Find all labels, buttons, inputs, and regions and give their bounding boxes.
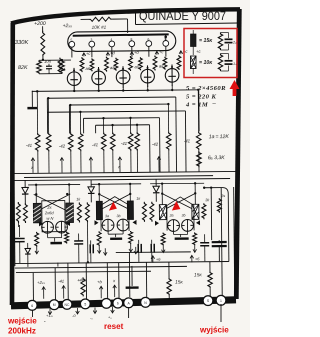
- svg-text:z: z: [118, 165, 120, 169]
- diode stage1 lower: [27, 243, 29, 248]
- wire pin7 up: [145, 262, 147, 299]
- stage1 cross wires: [34, 194, 71, 213]
- grid resistor 3: [139, 57, 143, 70]
- terminal pin A: [124, 298, 134, 308]
- svg-text:= 10ᴋ: = 10ᴋ: [199, 60, 213, 66]
- svg-text:4 = 1M: 4 = 1M: [185, 102, 209, 109]
- terminal pin 1: [216, 295, 226, 305]
- resistor stage1 left a: [16, 202, 20, 223]
- tube pin 8: [129, 41, 135, 47]
- svg-text:5: 5: [71, 38, 73, 42]
- ground bottom mid: [131, 266, 133, 286]
- arrows stage2 lower: [98, 246, 100, 253]
- cathode diode stage1 right: [66, 221, 70, 226]
- left rail vertical: [13, 174, 16, 266]
- anode resistor 3: [105, 57, 109, 72]
- diode D1: [24, 180, 26, 186]
- svg-text:2x6d: 2x6d: [44, 210, 54, 215]
- svg-text:5: 5: [84, 302, 86, 306]
- svg-text:+d: +d: [134, 50, 139, 55]
- trigger tube V1b: [56, 221, 68, 233]
- label +6 right: [191, 255, 193, 262]
- grid resistor 1: [90, 58, 94, 71]
- svg-text:reset: reset: [104, 322, 124, 331]
- svg-text:QUINADE Y 9007: QUINADE Y 9007: [139, 9, 226, 23]
- arrow x bottom: [114, 285, 116, 297]
- indicator lamp 4: [141, 69, 155, 83]
- pullup resistor mid-bottom: [81, 277, 86, 296]
- bus wire 5: [84, 117, 160, 120]
- divider resistor 9 feed: [167, 104, 169, 131]
- divider resistor 10: [196, 131, 201, 150]
- capacitor stage2 right: [137, 244, 139, 253]
- stage1 wires top: [35, 185, 37, 204]
- cathode diode stage1 left: [39, 221, 43, 226]
- terminal pin NC: [62, 300, 72, 310]
- output loop inner vertical: [210, 188, 213, 240]
- trigger tube V2b: [117, 219, 129, 231]
- resistor stage3 right: [202, 203, 206, 219]
- legend resistor 2: [218, 54, 222, 72]
- divider resistor 1 feed: [36, 91, 38, 132]
- cathode diode stage3 right: [196, 220, 200, 225]
- label +c arrow: [83, 53, 85, 56]
- coupling bar stage2 left: [96, 201, 102, 220]
- divider resistor 8: [135, 132, 140, 151]
- bottom bus 2: [15, 266, 187, 268]
- terminal pin 6: [27, 300, 37, 310]
- legend symbol solid bar: [191, 34, 197, 47]
- resistor 15K right: [208, 271, 213, 288]
- divider resistor 4: [78, 132, 83, 151]
- divider resistor 8 feed: [136, 125, 138, 132]
- label +6 left: [152, 256, 154, 263]
- svg-text:a1: a1: [61, 67, 66, 72]
- indicator lamp 5: [165, 68, 179, 82]
- terminal pin M: [49, 300, 59, 310]
- svg-text:a6: a6: [85, 66, 90, 71]
- divider resistor 2: [46, 133, 51, 152]
- svg-text:4: 4: [111, 38, 113, 42]
- svg-text:1: 1: [220, 299, 222, 303]
- wire node under 330K: [42, 57, 44, 61]
- svg-text:3a: 3a: [105, 214, 109, 218]
- stage3 cross wires: [162, 193, 195, 210]
- wire 10K to tube: [81, 18, 89, 20]
- svg-text:330K: 330K: [15, 40, 30, 46]
- terminal pin blank: [102, 299, 112, 309]
- label +d arrow: [131, 52, 133, 55]
- svg-text:= 15ᴋ: = 15ᴋ: [199, 38, 213, 44]
- tube inner stub: [165, 35, 167, 40]
- wire pin4 up: [85, 263, 87, 300]
- bus wire 6: [96, 124, 150, 127]
- divider resistor 6: [110, 132, 115, 151]
- input stub down: [32, 310, 34, 317]
- svg-text:+d: +d: [110, 50, 115, 55]
- legend capacitor 2: [225, 60, 233, 62]
- svg-text:-41: -41: [26, 143, 33, 148]
- cathode diode stage2 left: [94, 220, 98, 225]
- frame top border: [11, 9, 240, 23]
- svg-text:200kHz: 200kHz: [8, 327, 36, 336]
- stage2 envelope: [101, 196, 129, 231]
- trigger tube V2a: [102, 219, 114, 231]
- grid resistor 2: [114, 58, 118, 71]
- legend symbol hatched bar: [191, 56, 197, 69]
- capacitor stage1 left: [19, 225, 21, 237]
- divider resistor 9: [166, 132, 171, 151]
- terminal pin N: [141, 297, 151, 307]
- bus right verticals: [198, 90, 200, 131]
- ground stage2: [110, 238, 122, 241]
- tube pin 6: [146, 41, 152, 47]
- svg-text:+₀: +₀: [108, 316, 112, 320]
- wire output up: [221, 188, 222, 299]
- frame right border: [236, 9, 239, 299]
- label +c arrow: [180, 51, 182, 54]
- capacitor stage2 left: [89, 244, 91, 253]
- label +c arrow: [156, 51, 158, 54]
- resistor left of lamp 1: [60, 60, 65, 74]
- output loop wire: [204, 188, 229, 241]
- arrow +2xx: [43, 287, 45, 299]
- lamp feed verticals: [73, 89, 75, 91]
- resistor 82K: [37, 60, 42, 74]
- svg-text:10n: 10n: [44, 59, 52, 64]
- arrow -41 bottom: [63, 286, 65, 299]
- stage2 wires top: [98, 184, 100, 202]
- bottom bus 3: [16, 271, 151, 272]
- wire 82K bottom join: [39, 73, 62, 75]
- resistor 330K: [41, 31, 45, 57]
- divider resistor 10 feed: [197, 90, 199, 131]
- coupling bar stage3 left: [159, 205, 166, 220]
- divider resistor 4 feed: [79, 112, 81, 132]
- svg-text:+2ₓₓ: +2ₓₓ: [37, 280, 45, 285]
- bus left verticals: [46, 98, 48, 133]
- divider resistor 7 feed: [130, 118, 132, 132]
- svg-text:15ᴋ: 15ᴋ: [194, 272, 202, 278]
- stage3 cathode join: [173, 232, 175, 235]
- resistor stage2 mid b: [150, 202, 154, 222]
- diode D3: [155, 179, 157, 185]
- wire 330K to 82K row: [39, 59, 71, 61]
- wire input up: [32, 273, 34, 302]
- wire pin5 up: [106, 263, 108, 300]
- stage1 text box: [42, 201, 65, 232]
- svg-text:6: 6: [148, 37, 150, 41]
- anode resistor 6: [177, 55, 181, 70]
- divider resistor 7: [128, 132, 133, 151]
- bus wire 2: [47, 97, 175, 98]
- bus wire 4: [47, 111, 185, 112]
- stage1 cathode wires: [47, 233, 49, 238]
- resistor under bar3L: [161, 233, 165, 246]
- indicator lamp 1: [67, 72, 81, 86]
- ground stage1: [50, 242, 62, 245]
- resistor output 5k: [217, 198, 221, 213]
- svg-text:5 = 220 K: 5 = 220 K: [186, 94, 216, 101]
- capacitor stage3 left: [150, 244, 152, 253]
- trigger tube V3b: [182, 219, 194, 231]
- arrow reset line: [128, 252, 130, 296]
- svg-text:wyjście: wyjście: [199, 326, 229, 335]
- arrow +b: [100, 286, 102, 298]
- coupling bar stage1 right: [66, 203, 74, 223]
- svg-text:M: M: [53, 303, 56, 307]
- legend resistor 1: [218, 33, 222, 51]
- feedback arrows mid: [32, 158, 34, 173]
- resistor 15K left: [167, 278, 172, 296]
- resistor stage1 right b: [85, 202, 89, 222]
- svg-text:∼: ∼: [212, 101, 216, 107]
- divider resistor 2 feed: [47, 98, 49, 132]
- resistor stage1 lower: [35, 232, 39, 247]
- right border inner wire: [234, 187, 235, 296]
- svg-text:w N: w N: [46, 216, 53, 221]
- label +d arrow: [107, 52, 109, 55]
- svg-text:-41: -41: [58, 279, 64, 284]
- divider resistor 6 feed: [112, 125, 114, 132]
- coupling bar stage1 left: [33, 203, 41, 223]
- cathode diode stage3 left: [155, 221, 159, 226]
- title block divider: [135, 11, 137, 25]
- stage3 envelope: [167, 197, 194, 231]
- bus above stages 3: [14, 178, 230, 180]
- grid resistor 4: [163, 57, 167, 70]
- stage2 cross wires: [99, 194, 130, 210]
- coupling bar stage3 right: [192, 204, 199, 219]
- bottom bus 1: [15, 262, 229, 264]
- legend capacitor 1: [225, 38, 233, 40]
- anode resistor 2: [80, 57, 84, 72]
- svg-text:+b: +b: [97, 279, 102, 284]
- trigger tube V3a: [168, 220, 180, 232]
- stage2 cathode join: [107, 231, 109, 234]
- svg-text:6ₐ 3,3K: 6ₐ 3,3K: [208, 155, 225, 161]
- svg-text:a0: a0: [134, 64, 139, 69]
- tube envelope E1T: [68, 31, 176, 52]
- svg-text:+4Fₓ: +4Fₓ: [77, 277, 86, 282]
- coupling bar stage2 right: [127, 201, 133, 220]
- frame bottom rail: [11, 300, 236, 306]
- capacitor stage3 right: [200, 242, 209, 244]
- svg-text:a8: a8: [110, 65, 115, 70]
- svg-text:-41: -41: [92, 142, 99, 147]
- svg-text:-41: -41: [184, 138, 191, 143]
- bottom bus 4: [116, 251, 191, 254]
- indicator lamp 2: [92, 71, 106, 85]
- svg-text:-₀: -₀: [90, 316, 93, 320]
- bus above stages 1: [14, 171, 236, 173]
- resistor under bar1R: [65, 232, 69, 244]
- divider resistor 5 feed: [103, 118, 105, 132]
- svg-text:8: 8: [131, 38, 133, 42]
- cathode diode stage2 right: [132, 220, 136, 225]
- svg-text:3a: 3a: [169, 214, 173, 218]
- tube pin 3: [89, 41, 95, 47]
- svg-text:9: 9: [165, 37, 167, 41]
- anode resistor 4: [129, 56, 133, 71]
- tube pin 5: [69, 41, 75, 47]
- resistor under bar2R: [129, 231, 133, 244]
- anode resistor 1: [58, 58, 62, 73]
- svg-text:3s: 3s: [221, 194, 225, 198]
- svg-text:+200: +200: [34, 21, 46, 27]
- svg-text:-42: -42: [59, 144, 66, 149]
- diode D2: [90, 180, 92, 186]
- terminal pin b: [113, 298, 123, 308]
- svg-text:-42: -42: [152, 142, 159, 147]
- svg-text:10K #1: 10K #1: [92, 25, 107, 30]
- trigger tube V1a: [42, 221, 54, 233]
- red arrow stage3: [172, 201, 181, 211]
- capacitor output big: [212, 241, 227, 243]
- svg-text:3b: 3b: [116, 214, 120, 218]
- svg-text:3b: 3b: [181, 213, 185, 217]
- resistor 10K horizontal: [89, 17, 113, 21]
- wire pin2 up: [54, 268, 56, 302]
- divider resistor 3: [68, 132, 73, 151]
- tube pin 4: [109, 41, 115, 47]
- legend red arrow: [230, 80, 240, 96]
- anode resistor 5: [153, 55, 157, 70]
- frame left border: [10, 23, 15, 305]
- svg-text:z: z: [31, 166, 33, 170]
- svg-text:15ᴋ: 15ᴋ: [175, 279, 183, 285]
- svg-text:3: 3: [91, 38, 93, 42]
- indicator lamp 3: [116, 70, 130, 84]
- ground stage3: [175, 237, 189, 240]
- svg-text:5 = 2×4560R: 5 = 2×4560R: [186, 85, 226, 92]
- legend red box: [184, 29, 237, 78]
- wire pin3 up: [67, 263, 69, 301]
- resistor under bar3R: [193, 232, 197, 245]
- svg-text:b: b: [117, 302, 119, 306]
- arrows stage2 lower right: [130, 244, 132, 252]
- resistor stage1 right a: [77, 202, 81, 222]
- output stub down: [220, 304, 222, 322]
- svg-text:NC: NC: [65, 303, 70, 307]
- wire +200 feed: [42, 26, 44, 31]
- svg-text:1a = 12K: 1a = 12K: [209, 134, 230, 140]
- capacitor stage1 right: [74, 240, 83, 242]
- svg-text:+2ₓₓ: +2ₓₓ: [63, 23, 73, 29]
- svg-text:1ₙ: 1ₙ: [233, 62, 237, 66]
- red arrow stage2: [109, 202, 117, 211]
- svg-text:wejście: wejście: [7, 317, 37, 326]
- resistor stage1 left b: [23, 203, 27, 223]
- output loop to bus: [228, 240, 230, 261]
- svg-text:6: 6: [31, 304, 33, 308]
- resistor 3,3K lower: [197, 151, 202, 167]
- wire pin8 up: [118, 263, 120, 300]
- reset stub down: [128, 307, 130, 318]
- bus wire 3: [69, 103, 168, 106]
- divider resistor 3 feed: [69, 105, 71, 132]
- resistor under bar2L: [97, 231, 101, 246]
- svg-text:82K: 82K: [18, 65, 28, 71]
- stage3 wires top: [161, 184, 163, 205]
- bus above stages 2: [24, 176, 213, 178]
- divider resistor 5: [101, 132, 106, 151]
- svg-text:2ₚ: 2ₚ: [232, 41, 237, 45]
- terminal pin 5: [80, 299, 90, 309]
- bottom left vertical joins: [27, 263, 29, 267]
- terminal pin S: [203, 296, 213, 306]
- divider resistor 1: [35, 133, 40, 152]
- tube anode bar: [73, 34, 169, 35]
- stage1 drop wires: [18, 223, 20, 227]
- resistor stage2 mid a: [142, 202, 146, 222]
- ground left: [31, 91, 33, 107]
- svg-text:-41: -41: [121, 141, 128, 146]
- tube pin 9: [163, 40, 169, 46]
- bus wire 1: [32, 90, 198, 92]
